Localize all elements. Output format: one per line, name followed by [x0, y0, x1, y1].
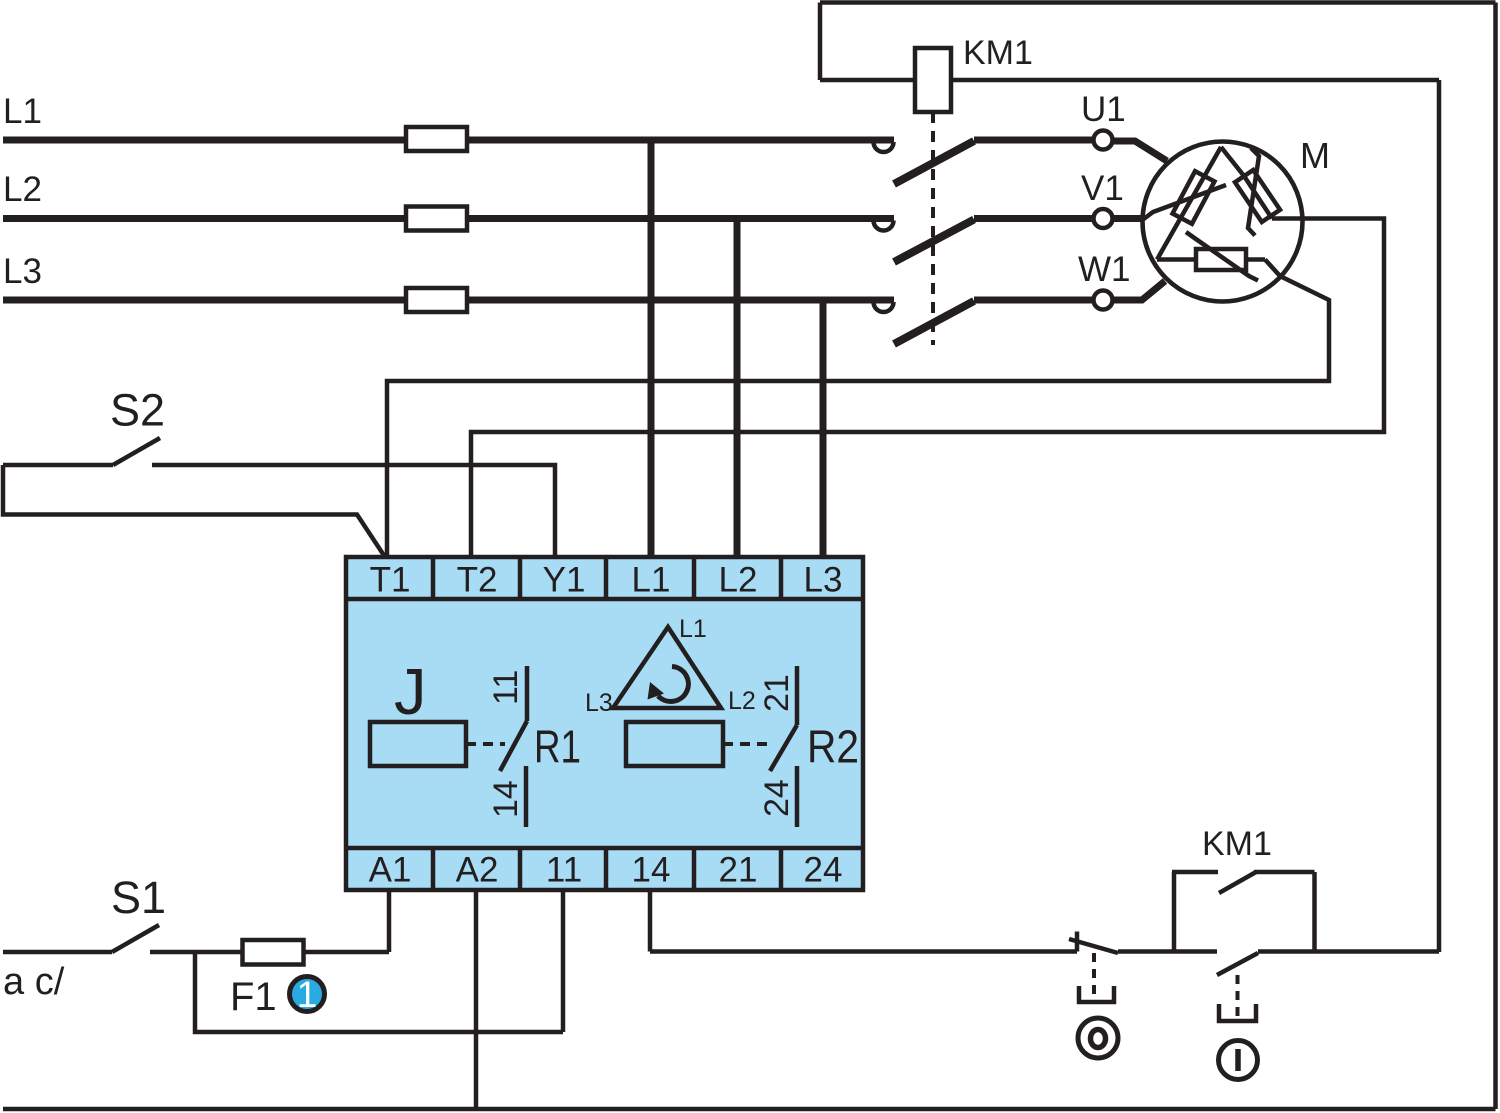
svg-text:KM1: KM1 [1202, 825, 1272, 863]
wire L1 phase line [3, 137, 894, 144]
motor terminal V1 [1094, 209, 1113, 228]
supply label a c/ [3, 961, 65, 1003]
start button actuator bracket [1219, 1004, 1256, 1021]
switch S2 arm [113, 438, 160, 465]
dashed link coil R2 to contact R2 [723, 742, 772, 746]
fuse F1 [243, 940, 304, 965]
svg-text:R2: R2 [807, 721, 859, 773]
contactor KM1 fixed contact hook pole 1 [874, 142, 894, 152]
thermistor R-B strike line [1248, 148, 1259, 236]
svg-text:11: 11 [546, 851, 582, 890]
contact R2 moving arm [770, 725, 797, 771]
svg-text:L2: L2 [728, 687, 756, 715]
motor delta bottom side line [1157, 257, 1265, 262]
wire delta bottom-right exit to T1 loop [387, 260, 1329, 558]
fuse on L2 [406, 207, 467, 231]
pin label 21 [758, 674, 796, 712]
motor M body circle [1143, 142, 1303, 302]
wire pole 3 to W1 [974, 297, 1093, 304]
contactor KM1 fixed contact hook pole 2 [874, 221, 894, 231]
contactor KM1 moving arm pole 3 [894, 301, 974, 344]
contact label R2 [807, 721, 859, 773]
node L2 supply label [3, 170, 42, 209]
wire S1 left lead (supply) [3, 950, 112, 955]
KM1 coil top circuit: left vertical from top border [818, 3, 823, 81]
switch S1 label [111, 872, 166, 923]
stop button actuator bracket [1079, 986, 1114, 1002]
pin label 24 [758, 779, 796, 817]
wire stop button to start button [1118, 949, 1217, 954]
stop button symbol O circle [1078, 1018, 1118, 1058]
switch S2 label [110, 385, 165, 436]
svg-text:1: 1 [297, 974, 318, 1015]
contact R1 moving arm [500, 721, 527, 771]
KM1 aux contact left lead [1172, 872, 1177, 952]
relay terminal row bottom divider [346, 846, 863, 851]
wire L3 phase line [3, 297, 894, 304]
svg-text:L1: L1 [632, 561, 671, 600]
svg-text:U1: U1 [1081, 90, 1126, 129]
wire L3 drop to relay terminal L3 [820, 300, 827, 557]
callout circle 1 [290, 977, 325, 1012]
svg-text:V1: V1 [1081, 169, 1124, 208]
svg-text:S2: S2 [110, 385, 165, 436]
contact R2 top lead (21) [795, 666, 800, 725]
relay terminal row top divider [346, 597, 863, 602]
wire top border [820, 0, 1496, 5]
thermistor R-B rectangle (right) [1235, 170, 1280, 222]
wire right control drop [1437, 80, 1442, 952]
wire S1 bypass loop down [195, 952, 563, 1032]
stop button linkage dashed [1092, 953, 1096, 999]
wire terminal 11 drop [561, 890, 566, 1032]
svg-text:L2: L2 [719, 561, 758, 600]
svg-text:L2: L2 [3, 170, 42, 209]
wire S2 left return loop to T1 [3, 465, 385, 557]
start button linkage dashed [1236, 975, 1240, 1018]
svg-text:14: 14 [632, 851, 671, 890]
svg-text:24: 24 [804, 851, 843, 890]
contactor KM1 linkage dashed line [931, 112, 935, 345]
pin label 14 [487, 780, 525, 818]
wire L1 drop to relay terminal L1 [648, 140, 655, 557]
wire L2 phase line [3, 215, 894, 222]
KM1 aux contact bridge top left [1172, 870, 1218, 875]
relay coil R2 rectangle [626, 722, 723, 766]
KM1 aux contact arm [1219, 872, 1256, 893]
svg-text:21: 21 [758, 674, 796, 712]
wire 14 to stop button [650, 949, 1077, 954]
contactor KM1 fixed contact hook pole 3 [874, 302, 894, 312]
wire right border vertical [1493, 3, 1498, 1110]
svg-text:L3: L3 [804, 561, 843, 600]
motor delta right side winding line [1221, 147, 1272, 219]
pin label 11 [487, 670, 525, 705]
wire terminal A2 drop to bottom rail [474, 890, 479, 1107]
fuse on L1 [406, 127, 467, 151]
contactor KM1 moving arm pole 1 [894, 141, 974, 184]
svg-text:14: 14 [487, 780, 525, 818]
relay coil J rectangle [370, 722, 466, 766]
relay U1 body box [346, 557, 863, 890]
svg-text:L1: L1 [679, 615, 707, 643]
svg-text:R1: R1 [534, 721, 581, 773]
fuse on L3 [406, 288, 467, 312]
contactor coil KM1 [915, 48, 951, 112]
svg-text:KM1: KM1 [963, 34, 1033, 72]
node L3 supply label [3, 252, 42, 291]
start button symbol I circle [1219, 1041, 1258, 1080]
svg-text:A2: A2 [456, 851, 499, 890]
terminal dividers top row [433, 557, 781, 599]
thermistor R-C rectangle (bottom) [1196, 249, 1246, 270]
stop button fixed tick [1075, 932, 1080, 952]
KM1 aux contact bridge top right [1254, 870, 1315, 875]
svg-text:Y1: Y1 [543, 561, 586, 600]
wire from KM1 coil to right drop [951, 78, 1439, 83]
wire bottom rail [3, 1107, 1496, 1112]
thermistor R-C strike line [1186, 232, 1258, 281]
wire start button to right drop [1258, 949, 1439, 954]
node L1 supply label [3, 92, 42, 131]
dashed link coil J to contact R1 [466, 742, 505, 746]
phase sequence triangle [613, 627, 721, 708]
KM1 aux label [1202, 825, 1272, 863]
stop button NC arm [1069, 939, 1118, 953]
wire pole 2 to V1 [974, 215, 1093, 222]
wire L2 drop to relay terminal L2 [734, 219, 741, 558]
svg-text:L3: L3 [3, 252, 42, 291]
svg-text:a c/: a c/ [3, 961, 65, 1003]
triangle label L1 [585, 615, 756, 717]
wire pole 1 to U1 [974, 137, 1093, 144]
svg-text:T2: T2 [457, 561, 498, 600]
switch S1 arm [112, 925, 159, 952]
wire delta right exit to T2 loop [471, 219, 1384, 558]
wire U1 to motor [1113, 141, 1168, 161]
motor terminal W1 [1094, 291, 1113, 310]
svg-text:L1: L1 [3, 92, 42, 131]
wire S1 to fuse F1 [150, 950, 242, 955]
thermistor R-A rectangle (left) [1173, 171, 1215, 224]
motor terminal U1 [1094, 131, 1113, 150]
wire S2 left lead [3, 463, 113, 468]
start button NO arm [1217, 953, 1258, 975]
contact R1 bottom lead (14) [524, 766, 529, 827]
svg-text:A1: A1 [369, 851, 412, 890]
contact label R1 [534, 721, 581, 773]
wire W1 to motor [1113, 281, 1166, 300]
wire V1 to motor [1113, 215, 1143, 222]
contact R2 bottom lead (24) [795, 766, 800, 827]
svg-text:F1: F1 [230, 975, 277, 1019]
svg-text:M: M [1300, 135, 1330, 176]
terminal dividers bottom row [433, 848, 781, 890]
contactor KM1 moving arm pole 2 [894, 220, 974, 263]
svg-text:T1: T1 [370, 561, 411, 600]
wire terminal A1 drop [387, 890, 392, 952]
thermistor R-A strike line from V1 [1143, 185, 1226, 220]
svg-text:J: J [394, 655, 427, 728]
KM1 aux contact right lead [1312, 872, 1317, 952]
svg-text:21: 21 [719, 851, 758, 890]
svg-text:W1: W1 [1078, 250, 1131, 289]
motor delta left side winding line [1157, 147, 1221, 260]
relay function label J [394, 655, 427, 728]
wire from border to KM1 coil [820, 78, 915, 83]
svg-text:L3: L3 [585, 689, 613, 717]
svg-text:11: 11 [487, 670, 525, 705]
wire S2 right lead to Y1 [152, 465, 555, 557]
rotation direction arrow [658, 667, 688, 702]
wire terminal 14 drop [648, 890, 653, 952]
svg-text:24: 24 [758, 779, 796, 817]
wire fuse F1 to terminal A1 [303, 950, 389, 955]
terminal label T1 [369, 561, 843, 890]
contact R1 top lead (11) [525, 666, 530, 721]
svg-text:S1: S1 [111, 872, 166, 923]
